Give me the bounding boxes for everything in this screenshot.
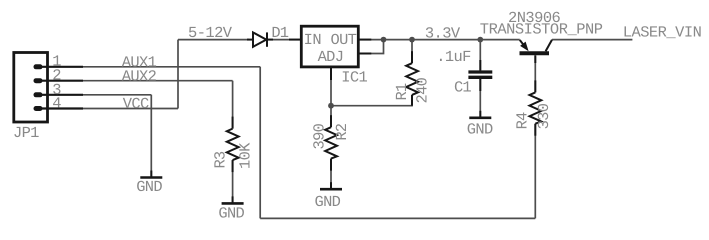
ground bar C1 [469, 117, 491, 120]
emitter arrowhead [520, 42, 529, 52]
JP1 pin 3 stub [36, 92, 83, 97]
junction dot ADJ node [328, 103, 334, 109]
junction dot OUT tie [381, 37, 387, 43]
junction dot C1 top [477, 37, 483, 43]
wire net VCC pin4 horizontal [83, 108, 178, 110]
capacitor C1 plates [468, 72, 492, 77]
wire net LASER_VIN collector out [552, 39, 632, 41]
junction dot R1 top [409, 37, 415, 43]
svg-text:390: 390 [310, 123, 328, 149]
JP1 pin 2 stub [36, 78, 83, 83]
svg-text:240: 240 [413, 77, 431, 103]
wire net AUX2 drop to R3 [232, 81, 234, 129]
svg-text:ADJ: ADJ [318, 48, 344, 66]
svg-text:IN: IN [304, 31, 322, 49]
svg-text:D1: D1 [271, 24, 289, 42]
wire net AUX1 bottom run [260, 217, 535, 219]
ground stub C1 [479, 111, 481, 118]
wire net 3.3V: OUT to emitter [359, 39, 520, 41]
wire net AUX1 pin1 horizontal [83, 66, 260, 68]
svg-text:330: 330 [535, 103, 553, 129]
svg-text:GND: GND [467, 121, 493, 139]
ground stub R3 [232, 196, 234, 203]
ground bar R3 [222, 202, 244, 205]
svg-text:GND: GND [315, 193, 341, 211]
base bar [520, 51, 550, 55]
wire IC1 second right pin tie jog [371, 40, 384, 54]
svg-text:IC1: IC1 [341, 69, 367, 87]
wire ADJ node to R1 bottom [331, 95, 412, 106]
base stub [534, 55, 536, 63]
IC1 pin stubs [289, 40, 371, 80]
svg-text:R1: R1 [393, 83, 411, 101]
ground bar R2 [320, 188, 342, 191]
svg-text:GND: GND [136, 178, 162, 196]
resistor R2 zigzag [325, 127, 337, 158]
wire ADJ drop [330, 68, 332, 106]
svg-text:10K: 10K [237, 142, 255, 169]
voltage regulator IC1 box [301, 26, 358, 67]
wire R4 bottom to bottom run [534, 124, 536, 219]
svg-text:TRANSISTOR_PNP: TRANSISTOR_PNP [480, 21, 603, 39]
wire net AUX1 vertical drop [259, 67, 261, 219]
svg-text:LASER_VIN: LASER_VIN [623, 23, 702, 41]
wire C1 bottom to ground [479, 79, 481, 118]
resistor R1 zigzag [406, 63, 418, 95]
svg-text:R2: R2 [333, 123, 351, 141]
svg-text:R4: R4 [514, 112, 532, 130]
wire R1 top to 3.3V rail [411, 40, 413, 64]
resistor R4 zigzag [530, 92, 542, 123]
resistor R4 pin stubs [534, 80, 536, 135]
wire net VCC riser to 5-12V rail [177, 40, 179, 109]
resistor R1 pin stubs [411, 51, 413, 105]
wire C1 top drop [479, 40, 481, 71]
transistor Q 2N3906 PNP [520, 40, 553, 63]
wire R3 bottom to ground [232, 160, 234, 203]
resistor R2 pin stubs [330, 115, 332, 170]
JP1 pin 4 stub [36, 106, 83, 111]
svg-text:OUT: OUT [331, 31, 357, 49]
resistor R3 zigzag [227, 129, 239, 161]
diode D1 [247, 32, 273, 46]
wire net pin3 horizontal [83, 94, 151, 96]
JP1 pin 1 stub [36, 64, 83, 69]
wire diode cathode to IC1 IN [267, 39, 301, 41]
resistor R3 pin stubs [232, 117, 234, 173]
svg-text:.1uF: .1uF [436, 48, 471, 66]
capacitor C1 pin stubs [479, 60, 481, 91]
svg-text:JP1: JP1 [13, 124, 39, 142]
ground stub R2 [330, 182, 332, 189]
svg-text:5-12V: 5-12V [188, 24, 233, 42]
wire R2 bottom to ground [330, 159, 332, 190]
connector JP1 body [14, 53, 48, 123]
svg-text:3.3V: 3.3V [425, 24, 461, 42]
svg-text:AUX2: AUX2 [122, 67, 157, 85]
collector diagonal [546, 40, 552, 51]
svg-text:R3: R3 [211, 151, 229, 169]
wire R2 top [330, 106, 332, 128]
wire net pin3 drop to ground [150, 95, 152, 178]
ground stub pin3 [150, 171, 152, 178]
ground bar pin3 [140, 176, 162, 179]
wire net 5-12V rail to diode [178, 39, 249, 41]
wire transistor base to R4 [534, 57, 536, 93]
svg-text:C1: C1 [454, 78, 472, 96]
svg-text:VCC: VCC [123, 95, 149, 113]
wire net AUX2 pin2 horizontal [83, 80, 233, 82]
svg-text:4: 4 [52, 95, 61, 113]
emitter diagonal [520, 40, 524, 45]
svg-text:GND: GND [218, 204, 244, 222]
